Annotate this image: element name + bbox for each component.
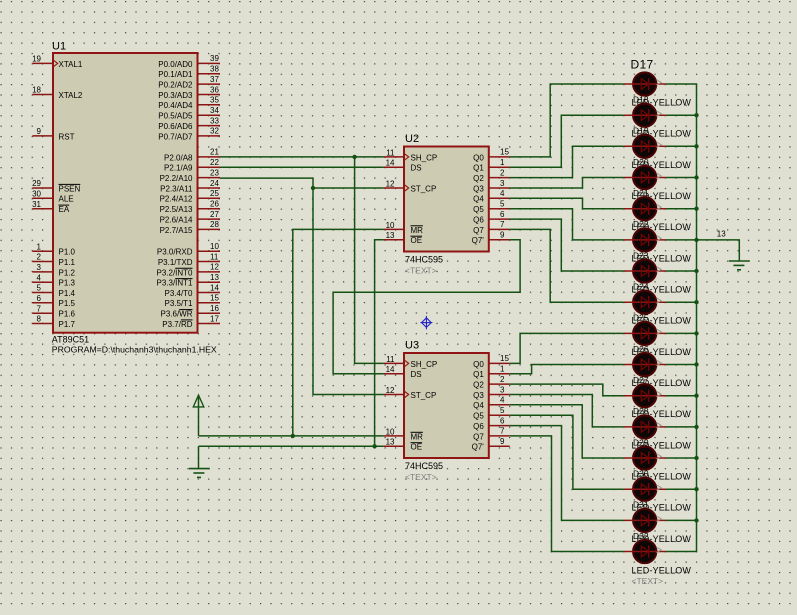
svg-text:15: 15 — [500, 354, 509, 363]
svg-text:28: 28 — [210, 220, 219, 229]
svg-text:10: 10 — [386, 221, 395, 230]
svg-text:EA: EA — [59, 205, 70, 214]
U3 pin 2 Q2 — [473, 375, 510, 390]
svg-text:U1: U1 — [52, 41, 66, 53]
U2 pin 10 MR — [384, 221, 424, 235]
svg-text:7: 7 — [37, 304, 42, 313]
U2 pin 11 SH_CP — [384, 148, 438, 162]
svg-text:SH_CP: SH_CP — [411, 153, 438, 162]
wire U2 Q7 to LED D24 — [510, 229, 624, 302]
svg-text:22: 22 — [210, 158, 219, 167]
svg-text:RST: RST — [59, 132, 75, 141]
U1 pin 14 P3.4/T0 — [164, 283, 220, 298]
svg-text:3: 3 — [37, 263, 42, 272]
svg-text:74HC595: 74HC595 — [405, 255, 443, 265]
svg-text:DS: DS — [411, 370, 422, 379]
junction LED bus at row 7 — [694, 269, 698, 273]
wire LED cathode bus (net 13) — [666, 84, 697, 552]
U3 pin 1 Q1 — [473, 365, 510, 380]
svg-text:P1.1: P1.1 — [59, 258, 76, 267]
svg-text:7: 7 — [500, 220, 505, 229]
svg-text:P2.2/A10: P2.2/A10 — [160, 174, 193, 183]
svg-text:P3.6/WR: P3.6/WR — [160, 310, 192, 319]
svg-text:MR: MR — [411, 226, 424, 235]
U1 pin 37 P0.2/AD2 — [158, 75, 220, 90]
svg-text:P3.5/T1: P3.5/T1 — [164, 299, 193, 308]
svg-text:MR: MR — [411, 432, 424, 441]
svg-text:7: 7 — [500, 427, 505, 436]
U3 pin 5 Q5 — [473, 406, 510, 421]
svg-text:P1.6: P1.6 — [59, 310, 76, 319]
junction MR net on power rail — [291, 434, 295, 438]
U1 pin 36 P0.3/AD3 — [158, 85, 220, 100]
LED D22 LED-YELLOW — [624, 228, 692, 263]
wire LED D29 cathode to bus — [666, 457, 697, 459]
svg-text:14: 14 — [386, 365, 395, 374]
U3 body — [404, 353, 489, 458]
U1 pin 10 P3.0/RXD — [157, 242, 220, 257]
wire U2 Q0 to LED D17 — [510, 84, 624, 157]
U2 pin 3 Q3 — [473, 179, 510, 194]
svg-text:3: 3 — [500, 179, 505, 188]
junction LED bus at row 15 — [694, 518, 698, 522]
wire net 21 P2.0/A8: U1 pin 21 to U2 SH_CP and down to U3 SH_CP — [220, 157, 384, 364]
U1 pin 23 P2.2/A10 — [160, 168, 220, 183]
svg-text:P2.5/A13: P2.5/A13 — [160, 205, 193, 214]
svg-text:9: 9 — [500, 437, 505, 446]
U1 pin 1 P1.0 — [32, 242, 75, 256]
svg-text:5: 5 — [500, 406, 505, 415]
svg-text:U2: U2 — [405, 133, 419, 145]
junction OE net on U3 OE wire — [372, 444, 376, 448]
U2 pin 9 Q7' — [472, 231, 510, 246]
U1 pin 13 P3.3/INT1 — [156, 273, 220, 288]
svg-text:14: 14 — [386, 159, 395, 168]
svg-text:13: 13 — [386, 438, 395, 447]
svg-text:P3.1/TXD: P3.1/TXD — [158, 258, 193, 267]
U1 pin 38 P0.1/AD1 — [158, 65, 220, 80]
svg-text:24: 24 — [210, 179, 219, 188]
wire U2 Q2 to LED D19 — [510, 146, 624, 177]
U1 pin 12 P3.2/INT0 — [156, 263, 220, 278]
junction LED bus at row 9 — [694, 331, 698, 335]
svg-text:P1.3: P1.3 — [59, 279, 76, 288]
svg-text:P3.3/INT1: P3.3/INT1 — [156, 279, 193, 288]
U1 pin 29 PSEN — [32, 179, 80, 193]
svg-text:34: 34 — [210, 106, 219, 115]
wire U2 Q6 to LED D23 — [510, 219, 624, 271]
junction LED bus at row 12 — [694, 425, 698, 429]
U1 pin 11 P3.1/TXD — [158, 252, 220, 267]
svg-text:P2.1/A9: P2.1/A9 — [164, 164, 193, 173]
U2 pin 6 Q6 — [473, 210, 510, 225]
wire U2 Q5 to LED D22 — [510, 209, 624, 240]
U1 pin 28 P2.7/A15 — [160, 220, 220, 235]
junction LED bus at row 5 — [694, 207, 698, 211]
svg-text:P2.7/A15: P2.7/A15 — [160, 226, 193, 235]
LED D26 LED-YELLOW — [624, 353, 692, 388]
U3 pin 3 Q3 — [473, 385, 510, 400]
junction LED bus at row 4 — [694, 175, 698, 179]
junction LED bus at row 14 — [694, 487, 698, 491]
svg-text:1: 1 — [500, 365, 505, 374]
wire net 13 bus tap to ground — [697, 240, 740, 261]
svg-text:SH_CP: SH_CP — [411, 360, 438, 369]
svg-text:Q3: Q3 — [473, 184, 484, 193]
svg-text:37: 37 — [210, 75, 219, 84]
svg-text:4: 4 — [500, 396, 505, 405]
wire LED D20 cathode to bus — [666, 177, 697, 179]
svg-text:13: 13 — [717, 230, 726, 239]
svg-text:P2.0/A8: P2.0/A8 — [164, 153, 193, 162]
svg-text:Q0: Q0 — [473, 153, 484, 162]
wire LED D18 cathode to bus — [666, 114, 697, 116]
U3 pin 15 Q0 — [473, 354, 510, 369]
svg-text:P3.7/RD: P3.7/RD — [162, 320, 192, 329]
U3 pin 11 SH_CP — [384, 355, 438, 369]
U1 pin 9 RST — [32, 127, 74, 141]
U2 pin 2 Q2 — [473, 168, 510, 183]
U1 pin 4 P1.3 — [32, 273, 75, 287]
svg-text:39: 39 — [210, 54, 219, 63]
svg-text:Q6: Q6 — [473, 216, 484, 225]
svg-text:XTAL2: XTAL2 — [59, 91, 83, 100]
U1 pin 5 P1.4 — [32, 284, 75, 298]
svg-text:15: 15 — [500, 148, 509, 157]
wire U3 Q3 to LED D28 — [510, 395, 624, 427]
svg-text:6: 6 — [37, 294, 42, 303]
junction net 21 at U2 SH_CP branch — [352, 155, 356, 159]
svg-text:12: 12 — [386, 179, 395, 188]
wire LED D21 cathode to bus — [666, 208, 697, 210]
svg-text:11: 11 — [386, 355, 395, 364]
svg-text:13: 13 — [386, 231, 395, 240]
LED D32 LED-YELLOW — [624, 540, 692, 586]
svg-text:2: 2 — [500, 168, 505, 177]
junction LED bus at row 11 — [694, 394, 698, 398]
junction LED bus at row 6 — [694, 238, 698, 242]
LED D28 LED-YELLOW — [624, 415, 692, 450]
U2 pin 12 ST_CP — [384, 179, 437, 193]
wire U3 Q5 to LED D30 — [510, 415, 624, 489]
svg-text:6: 6 — [500, 210, 505, 219]
svg-text:19: 19 — [32, 55, 41, 64]
LED D20 LED-YELLOW — [624, 166, 692, 201]
svg-text:11: 11 — [210, 252, 219, 261]
U1 pin 8 P1.7 — [32, 315, 75, 329]
svg-text:Q4: Q4 — [473, 195, 484, 204]
U1 pin 22 P2.1/A9 — [164, 158, 220, 173]
U1 pin 19 XTAL1 — [32, 55, 83, 69]
U2 body — [404, 147, 489, 252]
svg-text:P2.3/A11: P2.3/A11 — [160, 184, 193, 193]
svg-text:Q6: Q6 — [473, 422, 484, 431]
svg-text:Q2: Q2 — [473, 381, 484, 390]
wire LED D19 cathode to bus — [666, 145, 697, 147]
svg-text:<TEXT>: <TEXT> — [405, 472, 437, 482]
LED D23 LED-YELLOW — [624, 259, 692, 294]
U3 pin 7 Q7 — [473, 427, 510, 442]
U2 pin 14 DS — [384, 159, 422, 173]
LED D19 LED-YELLOW — [624, 135, 692, 170]
U2 pin 15 Q0 — [473, 148, 510, 163]
junction net 23 at U2 ST_CP branch — [311, 186, 315, 190]
U3 pin 13 OE — [384, 438, 423, 452]
LED D17 LED-YELLOW — [624, 57, 692, 107]
svg-text:XTAL1: XTAL1 — [59, 60, 83, 69]
svg-text:12: 12 — [386, 386, 395, 395]
svg-text:P1.0: P1.0 — [59, 248, 76, 257]
U3 pin 4 Q4 — [473, 396, 510, 411]
U1 pin 6 P1.5 — [32, 294, 75, 308]
wire LED D24 cathode to bus — [666, 301, 697, 303]
svg-text:P1.5: P1.5 — [59, 299, 76, 308]
svg-text:26: 26 — [210, 200, 219, 209]
svg-text:P0.3/AD3: P0.3/AD3 — [158, 91, 193, 100]
U3 pin 14 DS — [384, 365, 422, 379]
svg-text:9: 9 — [37, 127, 42, 136]
LED D30 LED-YELLOW — [624, 478, 692, 513]
svg-text:P0.2/AD2: P0.2/AD2 — [158, 81, 193, 90]
ground symbol left — [189, 469, 210, 478]
svg-text:P0.5/AD5: P0.5/AD5 — [158, 112, 193, 121]
svg-text:Q7: Q7 — [473, 432, 484, 441]
wire net 22 P2.1/A9: U1 pin 22 to U2 DS — [220, 166, 384, 168]
svg-text:OE: OE — [411, 236, 423, 245]
U1 pin 31 EA — [32, 200, 70, 214]
wire LED D25 cathode to bus — [666, 332, 697, 334]
svg-text:30: 30 — [32, 190, 41, 199]
wire LED D22 cathode to bus — [666, 239, 697, 241]
svg-text:OE: OE — [411, 443, 423, 452]
microcontroller U1 AT89C51 — [32, 41, 220, 355]
svg-text:PSEN: PSEN — [59, 184, 81, 193]
svg-text:<TEXT>: <TEXT> — [632, 576, 664, 586]
wire U3 Q6 to LED D31 — [510, 426, 624, 521]
svg-text:P0.4/AD4: P0.4/AD4 — [158, 101, 193, 110]
svg-text:29: 29 — [32, 179, 41, 188]
svg-text:1: 1 — [37, 242, 42, 251]
U1 pin 16 P3.6/WR — [160, 304, 220, 319]
U1 pin 25 P2.4/A12 — [160, 189, 220, 204]
svg-text:PROGRAM=D:\thuchanh3\thuchanh1: PROGRAM=D:\thuchanh3\thuchanh1.HEX — [52, 344, 217, 354]
U1 pin 21 P2.0/A8 — [164, 148, 220, 163]
svg-text:P1.2: P1.2 — [59, 268, 76, 277]
U1 pin 18 XTAL2 — [32, 86, 83, 100]
svg-text:8: 8 — [37, 315, 42, 324]
svg-text:10: 10 — [210, 242, 219, 251]
svg-text:38: 38 — [210, 65, 219, 74]
svg-text:P2.6/A14: P2.6/A14 — [160, 216, 193, 225]
LED D21 LED-YELLOW — [624, 197, 692, 232]
LED D31 LED-YELLOW — [624, 509, 692, 544]
wire U3 Q4 to LED D29 — [510, 405, 624, 458]
svg-text:6: 6 — [500, 416, 505, 425]
svg-text:Q1: Q1 — [473, 164, 484, 173]
svg-text:1: 1 — [500, 158, 505, 167]
svg-text:35: 35 — [210, 96, 219, 105]
svg-text:33: 33 — [210, 116, 219, 125]
junction LED bus at row 2 — [694, 113, 698, 117]
U3 pin 6 Q6 — [473, 416, 510, 431]
LED D25 LED-YELLOW — [624, 322, 692, 357]
wire U3 Q2 to LED D27 — [510, 384, 624, 396]
wire U3 Q0 to LED D25 — [510, 333, 624, 363]
LED D18 LED-YELLOW — [624, 104, 692, 139]
wire U2 Q7' to U3 DS (daisy chain) — [333, 240, 520, 374]
U1 pin 26 P2.5/A13 — [160, 200, 220, 215]
junction LED bus at row 3 — [694, 144, 698, 148]
wire LED D23 cathode to bus — [666, 270, 697, 272]
wire LED D31 cathode to bus — [666, 519, 697, 521]
svg-text:Q1: Q1 — [473, 370, 484, 379]
U1 pin 15 P3.5/T1 — [164, 294, 220, 309]
svg-text:18: 18 — [32, 86, 41, 95]
U1 pin 34 P0.5/AD5 — [158, 106, 220, 121]
svg-text:DS: DS — [411, 164, 422, 173]
wire U2 Q3 to LED D20 — [510, 178, 624, 189]
shift register U3 74HC595 — [384, 340, 510, 483]
U3 pin 9 Q7' — [472, 437, 510, 452]
svg-text:25: 25 — [210, 189, 219, 198]
svg-text:P1.4: P1.4 — [59, 289, 76, 298]
svg-text:2: 2 — [500, 375, 505, 384]
svg-text:15: 15 — [210, 294, 219, 303]
wire LED D27 cathode to bus — [666, 395, 697, 397]
svg-text:Q4: Q4 — [473, 401, 484, 410]
svg-text:17: 17 — [210, 314, 219, 323]
U2 pin 1 Q1 — [473, 158, 510, 173]
U3 pin 10 MR — [384, 427, 424, 441]
svg-text:D17: D17 — [631, 57, 654, 71]
svg-text:ALE: ALE — [59, 195, 74, 204]
svg-text:2: 2 — [37, 253, 42, 262]
svg-text:ST_CP: ST_CP — [411, 184, 437, 193]
svg-text:LED-YELLOW: LED-YELLOW — [632, 565, 692, 575]
LED D24 LED-YELLOW — [624, 291, 692, 326]
svg-text:ST_CP: ST_CP — [411, 391, 437, 400]
svg-text:P0.6/AD6: P0.6/AD6 — [158, 122, 193, 131]
wire net 23 P2.2/A10: U1 pin 23 to U2 ST_CP and U3 ST_CP — [220, 178, 384, 394]
ground symbol right — [729, 261, 750, 270]
U1 pin 27 P2.6/A14 — [160, 210, 220, 225]
svg-text:Q7': Q7' — [472, 236, 485, 245]
wire U3 Q1 to LED D26 — [510, 365, 624, 374]
svg-text:P3.2/INT0: P3.2/INT0 — [156, 268, 193, 277]
power terminal VCC arrow — [193, 395, 204, 407]
svg-text:4: 4 — [500, 189, 505, 198]
svg-text:11: 11 — [386, 148, 395, 157]
svg-text:P3.0/RXD: P3.0/RXD — [157, 248, 193, 257]
wire LED D30 cathode to bus — [666, 488, 697, 490]
U1 body — [53, 53, 198, 333]
origin marker (blue) — [420, 316, 432, 329]
svg-text:5: 5 — [37, 284, 42, 293]
svg-text:P0.1/AD1: P0.1/AD1 — [158, 70, 193, 79]
U2 pin 5 Q5 — [473, 200, 510, 215]
svg-text:P0.7/AD7: P0.7/AD7 — [158, 132, 193, 141]
svg-text:U3: U3 — [405, 340, 419, 352]
svg-text:Q3: Q3 — [473, 391, 484, 400]
svg-text:36: 36 — [210, 85, 219, 94]
svg-text:14: 14 — [210, 283, 219, 292]
U1 pin 33 P0.6/AD6 — [158, 116, 220, 131]
svg-text:27: 27 — [210, 210, 219, 219]
U1 pin 2 P1.1 — [32, 253, 75, 267]
svg-text:Q7: Q7 — [473, 226, 484, 235]
U1 pin 30 ALE — [32, 190, 74, 204]
wire MR net: power rail to U2 MR and U3 MR — [199, 229, 384, 436]
svg-text:13: 13 — [210, 273, 219, 282]
wire U2 Q1 to LED D18 — [510, 115, 624, 167]
shift register U2 74HC595 — [384, 133, 510, 276]
U1 pin 39 P0.0/AD0 — [158, 54, 220, 69]
wire U2 Q4 to LED D21 — [510, 198, 624, 208]
svg-text:<TEXT>: <TEXT> — [405, 266, 437, 276]
wire LED D26 cathode to bus — [666, 364, 697, 366]
svg-text:P0.0/AD0: P0.0/AD0 — [158, 60, 193, 69]
svg-text:Q5: Q5 — [473, 205, 484, 214]
svg-text:9: 9 — [500, 231, 505, 240]
junction LED bus at row 10 — [694, 362, 698, 366]
svg-text:12: 12 — [210, 263, 219, 272]
svg-text:P2.4/A12: P2.4/A12 — [160, 195, 193, 204]
svg-text:23: 23 — [210, 168, 219, 177]
U1 pin 17 P3.7/RD — [162, 314, 220, 329]
junction LED bus at row 13 — [694, 456, 698, 460]
U2 pin 13 OE — [384, 231, 423, 245]
U1 pin 35 P0.4/AD4 — [158, 96, 220, 111]
svg-text:AT89C51: AT89C51 — [52, 335, 89, 345]
wire LED D28 cathode to bus — [666, 426, 697, 428]
svg-text:32: 32 — [210, 127, 219, 136]
svg-text:P3.4/T0: P3.4/T0 — [164, 289, 193, 298]
LED D27 LED-YELLOW — [624, 384, 692, 419]
wire U3 Q7 to LED D32 — [510, 436, 624, 552]
wire OE net: ground rail to U2 OE and U3 OE — [199, 240, 384, 469]
svg-text:Q5: Q5 — [473, 412, 484, 421]
junction LED bus at row 8 — [694, 300, 698, 304]
U1 pin 7 P1.6 — [32, 304, 75, 318]
U1 pin 24 P2.3/A11 — [160, 179, 220, 194]
svg-text:Q2: Q2 — [473, 174, 484, 183]
svg-text:Q7': Q7' — [472, 443, 485, 452]
svg-text:10: 10 — [386, 427, 395, 436]
U2 pin 7 Q7 — [473, 220, 510, 235]
U3 pin 12 ST_CP — [384, 386, 437, 400]
svg-text:5: 5 — [500, 200, 505, 209]
svg-text:74HC595: 74HC595 — [405, 461, 443, 471]
U1 pin 3 P1.2 — [32, 263, 75, 277]
U1 pin 32 P0.7/AD7 — [158, 127, 220, 142]
svg-text:P1.7: P1.7 — [59, 320, 76, 329]
U2 pin 4 Q4 — [473, 189, 510, 204]
svg-text:16: 16 — [210, 304, 219, 313]
svg-text:4: 4 — [37, 273, 42, 282]
LED D29 LED-YELLOW — [624, 446, 692, 481]
svg-text:21: 21 — [210, 148, 219, 157]
svg-text:31: 31 — [32, 200, 41, 209]
svg-text:3: 3 — [500, 385, 505, 394]
svg-text:Q0: Q0 — [473, 360, 484, 369]
